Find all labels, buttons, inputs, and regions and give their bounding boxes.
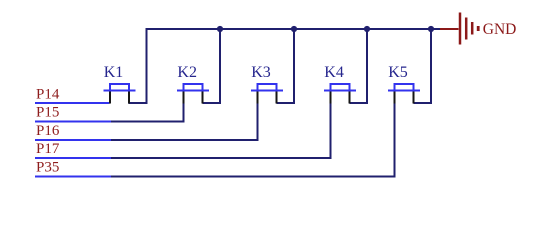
junction: bus / K3 riser xyxy=(291,26,297,32)
svg-text:K1: K1 xyxy=(104,64,124,81)
wire: K4 right leg elbow and riser to bus xyxy=(350,29,368,103)
pushbutton K1 xyxy=(104,64,136,104)
wire: K3 left leg down to P16 net line xyxy=(111,102,258,140)
node P17: port line xyxy=(35,157,111,159)
wire: K2 left leg down to P15 net line xyxy=(111,102,184,122)
wire: K5 right leg elbow and riser to bus xyxy=(414,29,432,103)
ground GND xyxy=(440,13,516,45)
wire: top GND bus rail with K1 right-leg riser xyxy=(129,29,441,103)
wire: K5 left leg down to P35 net line xyxy=(111,102,395,177)
wire: K3 right leg elbow and riser to bus xyxy=(277,29,295,103)
pushbutton K4 xyxy=(324,64,356,104)
svg-text:P14: P14 xyxy=(36,87,60,103)
svg-text:P16: P16 xyxy=(36,123,60,139)
node P35: port line xyxy=(35,176,111,178)
svg-text:P17: P17 xyxy=(36,141,60,157)
wire: K4 left leg down to P17 net line xyxy=(111,102,331,158)
svg-text:K3: K3 xyxy=(251,64,271,81)
svg-text:K4: K4 xyxy=(324,64,344,81)
junction: bus / K4 riser xyxy=(364,26,370,32)
junction: bus / K5 riser xyxy=(428,26,434,32)
pushbutton K5 xyxy=(388,64,420,104)
node P15: port line xyxy=(35,121,111,123)
pushbutton K2 xyxy=(177,64,209,104)
node P16: port line xyxy=(35,139,111,141)
wire: K2 right leg elbow and riser to bus xyxy=(203,29,221,103)
pushbutton K3 xyxy=(251,64,283,104)
svg-text:GND: GND xyxy=(483,21,517,38)
svg-text:P35: P35 xyxy=(36,160,59,176)
svg-text:P15: P15 xyxy=(36,105,59,121)
junction: bus / K2 riser xyxy=(217,26,223,32)
node P14: port line xyxy=(35,102,110,104)
svg-text:K2: K2 xyxy=(177,64,197,81)
svg-text:K5: K5 xyxy=(388,64,408,81)
